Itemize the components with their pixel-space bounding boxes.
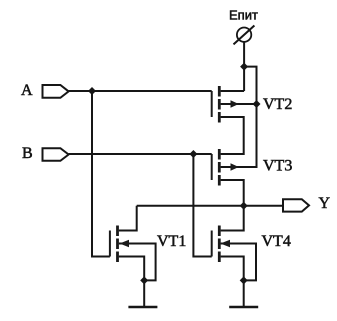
svg-text:VT1: VT1 xyxy=(157,233,186,250)
svg-text:VT2: VT2 xyxy=(263,96,292,113)
svg-text:VT3: VT3 xyxy=(263,158,292,175)
svg-text:Y: Y xyxy=(319,195,331,212)
svg-text:Епит: Епит xyxy=(229,8,258,23)
svg-text:VT4: VT4 xyxy=(262,233,291,250)
svg-text:A: A xyxy=(21,82,33,99)
svg-text:B: B xyxy=(22,145,33,162)
